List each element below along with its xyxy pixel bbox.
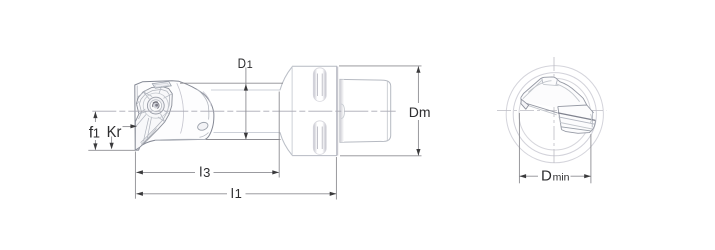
svg-text:D: D <box>238 55 246 71</box>
svg-text:l: l <box>231 185 234 201</box>
svg-text:D: D <box>541 168 552 185</box>
svg-text:1: 1 <box>93 126 100 141</box>
svg-text:l: l <box>199 164 202 180</box>
svg-text:Dm: Dm <box>409 104 431 120</box>
svg-text:1: 1 <box>235 186 242 201</box>
svg-text:3: 3 <box>203 165 210 180</box>
svg-text:Kr: Kr <box>107 124 122 141</box>
svg-text:1: 1 <box>247 59 253 71</box>
svg-text:min: min <box>553 172 570 184</box>
